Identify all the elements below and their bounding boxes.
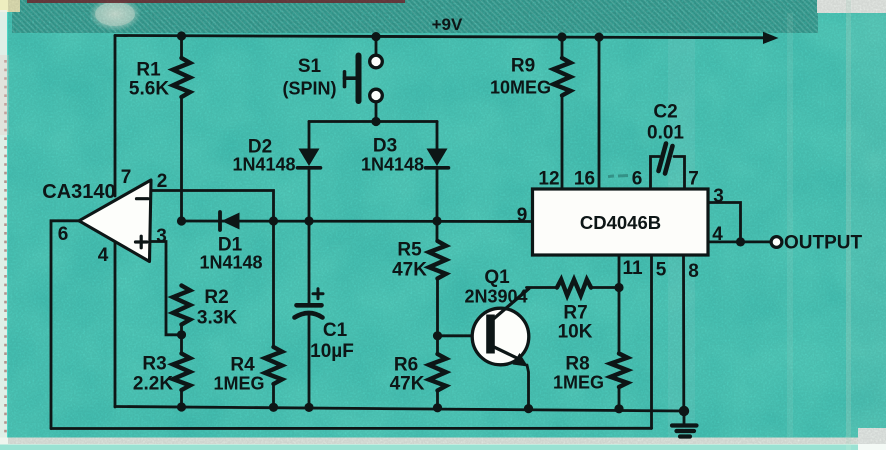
svg-text:1MEG: 1MEG bbox=[213, 374, 264, 394]
wire: D3 anode lead bbox=[436, 122, 439, 150]
wire: R4 bottom lead bbox=[272, 384, 275, 407]
wire: pin8 column bbox=[682, 255, 685, 411]
svg-text:2: 2 bbox=[157, 171, 168, 192]
output terminal bbox=[771, 237, 782, 248]
bottom right white corner bbox=[858, 428, 886, 450]
wire: S1 bottom to D2/D3 tee bbox=[375, 102, 378, 122]
svg-text:7: 7 bbox=[688, 169, 699, 190]
svg-text:4: 4 bbox=[98, 245, 109, 266]
svg-text:(SPIN): (SPIN) bbox=[283, 79, 337, 99]
node: D1/R4/pin2 junction bbox=[269, 216, 278, 225]
resistor R3 bbox=[173, 354, 190, 391]
node: D3/R5 junction bbox=[432, 216, 441, 225]
svg-text:OUTPUT: OUTPUT bbox=[784, 233, 863, 254]
node: R8 common junction bbox=[614, 404, 623, 413]
svg-text:10K: 10K bbox=[558, 322, 593, 343]
diode D2 bbox=[299, 149, 320, 167]
svg-text:CA3140: CA3140 bbox=[42, 181, 115, 203]
wire: C1 top lead bbox=[308, 221, 311, 304]
wire: common bus bbox=[115, 407, 684, 412]
pale blob top-left bbox=[89, 0, 141, 31]
svg-text:5.6K: 5.6K bbox=[129, 79, 169, 100]
svg-text:11: 11 bbox=[622, 258, 643, 279]
wire: pin5 column down to feedback bus bbox=[650, 255, 653, 428]
node: R3 common junction bbox=[177, 402, 186, 411]
op-amp U1 pin2 wire bbox=[151, 191, 274, 222]
svg-text:6: 6 bbox=[632, 169, 643, 190]
svg-text:10µF: 10µF bbox=[310, 341, 354, 362]
node: rail-S1 junction bbox=[371, 32, 380, 41]
right lighter zone bbox=[851, 0, 886, 450]
svg-text:7: 7 bbox=[121, 167, 132, 188]
svg-text:R8: R8 bbox=[565, 354, 589, 375]
node: R4 common junction bbox=[269, 403, 278, 412]
white top-right strip bbox=[817, 0, 886, 13]
left maroon dotted line bbox=[4, 60, 7, 445]
svg-text:5: 5 bbox=[656, 260, 667, 281]
svg-text:R5: R5 bbox=[397, 240, 422, 261]
switch S1 top contact bbox=[370, 55, 383, 68]
svg-text:Q1: Q1 bbox=[484, 267, 510, 288]
svg-text:9: 9 bbox=[517, 205, 528, 226]
wire: R3 bottom lead bbox=[180, 390, 183, 407]
node: R6 common junction bbox=[433, 403, 442, 412]
svg-text:8: 8 bbox=[688, 261, 699, 282]
svg-text:0.01: 0.01 bbox=[647, 123, 684, 144]
svg-text:R3: R3 bbox=[142, 354, 166, 375]
wire: pin11 column bbox=[618, 255, 621, 354]
op-amp U1 pin6 wire bbox=[51, 221, 79, 429]
switch S1 stem top bbox=[375, 37, 378, 55]
wire: rail corner down to op-amp pin 7 bbox=[114, 36, 117, 197]
white left strip bbox=[0, 10, 7, 450]
wire: R1 top lead bbox=[180, 36, 183, 58]
wire: D2 cathode down to node wire bbox=[308, 168, 311, 221]
svg-text:6: 6 bbox=[58, 224, 69, 245]
bottom white strip bbox=[0, 438, 886, 446]
top darker hatched band bbox=[12, 0, 818, 33]
wire: D3 cathode down to node wire bbox=[436, 168, 439, 221]
resistor R4 bbox=[265, 347, 282, 384]
capacitor C2 bracket bbox=[651, 157, 685, 190]
wire: pin3 loop bbox=[708, 203, 741, 242]
resistor R5 bbox=[429, 241, 446, 279]
+9V rail bbox=[115, 36, 764, 38]
op-amp minus sign bbox=[137, 197, 149, 200]
svg-text:+9V: +9V bbox=[432, 15, 463, 34]
node: D2/C1 junction bbox=[304, 216, 313, 225]
node: C1 common junction bbox=[304, 403, 313, 412]
wire: R1 bottom lead down to node wire bbox=[180, 97, 183, 221]
svg-text:3: 3 bbox=[713, 186, 724, 207]
node: rail-R9 junction bbox=[557, 32, 566, 41]
node: pin3/pin4 junction bbox=[736, 237, 745, 246]
pinkish patch left bbox=[0, 55, 9, 135]
IC U2 CD4046B pins 12,16 columns bbox=[562, 37, 599, 189]
op-amp plus sign bbox=[136, 236, 148, 248]
wire: R8 bottom lead bbox=[618, 387, 621, 409]
svg-text:D3: D3 bbox=[373, 136, 397, 157]
svg-text:10MEG: 10MEG bbox=[490, 78, 551, 98]
node: R5/R6/base junction bbox=[433, 331, 442, 340]
Q1 emitter lead bbox=[494, 347, 522, 361]
capacitor C1 plus sign bbox=[313, 289, 323, 299]
op-amp U1 pin4 wire bbox=[114, 242, 117, 408]
wire: emitter down to common bbox=[527, 365, 529, 409]
wire: main node bus to pin 9 bbox=[182, 220, 534, 223]
op-amp U1 CA3140 bbox=[79, 180, 151, 262]
svg-text:R7: R7 bbox=[563, 303, 587, 324]
diode D1 bbox=[218, 212, 222, 230]
wire: D2-D3 top bus bbox=[309, 120, 437, 123]
capacitor C1 curved plate bbox=[295, 313, 323, 318]
node: Q1 emitter common junction bbox=[524, 404, 533, 413]
svg-text:C1: C1 bbox=[323, 320, 348, 341]
svg-text:R6: R6 bbox=[394, 355, 418, 376]
Q1 base bar bbox=[486, 315, 495, 354]
resistor R1 bbox=[173, 58, 190, 97]
svg-text:2.2K: 2.2K bbox=[133, 374, 173, 395]
svg-text:1N4148: 1N4148 bbox=[232, 155, 295, 175]
resistor R2 bbox=[173, 286, 190, 325]
svg-text:4: 4 bbox=[712, 224, 723, 245]
svg-text:CD4046B: CD4046B bbox=[580, 212, 661, 233]
node: rail-R1 junction bbox=[177, 31, 186, 40]
switch S1 actuator bar bbox=[356, 56, 362, 102]
faint scanner streaks bbox=[668, 33, 695, 438]
node: rail-pin16 junction bbox=[594, 33, 603, 42]
resistor R9 bbox=[554, 58, 571, 96]
svg-text:47K: 47K bbox=[392, 260, 427, 281]
switch S1 plunger cap bbox=[343, 72, 347, 87]
svg-text:12: 12 bbox=[538, 169, 559, 190]
svg-text:47K: 47K bbox=[390, 374, 425, 395]
svg-text:C2: C2 bbox=[653, 102, 677, 123]
svg-text:1MEG: 1MEG bbox=[553, 373, 604, 393]
node: ground junction bbox=[679, 406, 689, 416]
node: S1 / D2 / D3 tee bbox=[371, 117, 380, 126]
node: R1/D1 junction bbox=[177, 216, 186, 225]
Q1 collector lead bbox=[494, 289, 529, 319]
ground bbox=[683, 411, 686, 424]
svg-text:1N4148: 1N4148 bbox=[199, 253, 262, 273]
svg-text:S1: S1 bbox=[298, 56, 322, 77]
wire: C1 bottom lead bbox=[308, 315, 311, 407]
faint artifact dashes near pin 6 bbox=[608, 176, 628, 177]
svg-text:R1: R1 bbox=[136, 60, 161, 81]
svg-text:2N3904: 2N3904 bbox=[464, 287, 527, 307]
wire: R2 bottom to R3 top bbox=[180, 325, 183, 354]
wire: D2 anode lead bbox=[308, 122, 311, 150]
wire: R5 links (D3 node to R5, R5 to base node, R6 to bottom) bbox=[436, 221, 439, 408]
svg-text:16: 16 bbox=[574, 169, 595, 190]
wire: R7 to pin11 column bbox=[591, 286, 619, 289]
maroon top edge line bbox=[27, 0, 405, 3]
diode D3 bbox=[427, 149, 448, 167]
svg-text:R2: R2 bbox=[204, 287, 228, 308]
resistor R7 bbox=[557, 280, 591, 296]
switch S1 plunger bbox=[345, 76, 356, 80]
resistor R6 bbox=[429, 354, 446, 391]
wire: feedback bus pin6 to pin5 bbox=[51, 427, 652, 430]
wire: collector to R7 bbox=[527, 286, 558, 289]
svg-text:R4: R4 bbox=[230, 355, 255, 376]
Q1 emitter arrowhead bbox=[513, 353, 529, 367]
wire: R4 top lead bbox=[272, 221, 275, 347]
wire: pin4 to output bbox=[708, 240, 771, 243]
svg-text:1N4148: 1N4148 bbox=[361, 155, 424, 175]
svg-text:3: 3 bbox=[156, 226, 167, 247]
pale yellow top-left corner bbox=[0, 0, 20, 12]
node: R7/pin11 junction bbox=[614, 283, 623, 292]
IC U2 CD4046B body bbox=[533, 189, 709, 255]
transistor Q1 2N3904 bbox=[472, 308, 529, 365]
wire: Q1 base wire bbox=[438, 334, 489, 337]
+9V rail arrowhead bbox=[763, 32, 779, 44]
op-amp U1 pin3 wire bbox=[150, 242, 182, 335]
svg-text:R9: R9 bbox=[511, 56, 535, 77]
node: R2/R3/pin3 junction bbox=[177, 330, 186, 339]
capacitor C2 plates bbox=[659, 144, 673, 174]
capacitor C1 plus plate bbox=[297, 303, 322, 308]
resistor R8 bbox=[611, 354, 628, 388]
svg-text:3.3K: 3.3K bbox=[197, 308, 237, 329]
switch S1 bottom contact bbox=[370, 89, 383, 102]
